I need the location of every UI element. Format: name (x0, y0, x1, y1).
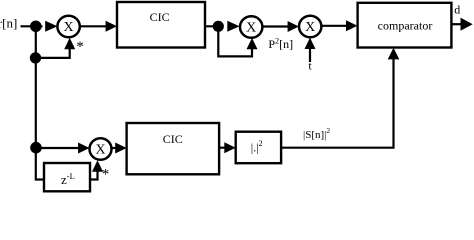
svg-text:X: X (95, 143, 105, 158)
svg-text:*: * (76, 39, 84, 55)
svg-text:d: d (454, 2, 460, 16)
svg-text:X: X (246, 21, 256, 36)
svg-text:*: * (102, 167, 110, 183)
svg-text:CIC: CIC (163, 132, 183, 146)
svg-text:CIC: CIC (150, 10, 170, 24)
svg-text:comparator: comparator (378, 18, 433, 32)
svg-text:|S[n]|2: |S[n]|2 (303, 126, 330, 141)
svg-text:X: X (64, 20, 74, 35)
svg-text:r[n]: r[n] (0, 16, 17, 31)
svg-text:P2[n]: P2[n] (268, 36, 293, 51)
svg-text:X: X (305, 20, 315, 35)
